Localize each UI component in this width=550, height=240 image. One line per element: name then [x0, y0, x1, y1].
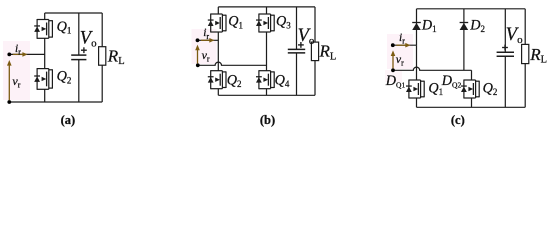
node input bottom (c): [391, 68, 395, 72]
polarity plus (b): [298, 42, 304, 48]
wire: (a) top input wire: [9, 53, 44, 55]
voltage arrow vr (c): [391, 50, 396, 68]
wire: (a) load branch: [101, 13, 103, 47]
voltage arrow vr (b): [195, 45, 200, 64]
svg-text:(b): (b): [260, 113, 275, 127]
resistor RL (b): [311, 42, 318, 61]
node input top (c): [391, 43, 395, 47]
capacitor Co (c): [497, 52, 514, 56]
wire: (b) Q2 source lead: [217, 89, 219, 96]
capacitor Co (b): [288, 49, 305, 53]
wire: (a) Q2 source lead: [44, 89, 46, 102]
wire (b) bottom input wire (with crossover hop): [198, 62, 267, 65]
wire: (a) bottom rail: [9, 101, 102, 103]
svg-text:(a): (a): [61, 113, 76, 127]
node input top (b): [196, 38, 200, 42]
transistor Q1 (c): [406, 80, 424, 99]
transistor Q2 (c): [461, 80, 479, 99]
svg-text:(c): (c): [451, 113, 465, 127]
wire: (c) D2 branch: [463, 9, 465, 71]
wire: (b) load branch: [314, 7, 316, 42]
wire: (b) Q4 source lead: [266, 89, 268, 96]
wire: (b) top rail: [218, 6, 315, 8]
diode D1: [412, 23, 421, 31]
wire: (a) Q1 drain lead: [44, 13, 46, 20]
current arrow ir (b): [201, 38, 215, 43]
pink highlight behind input annotations (c): [387, 34, 413, 69]
resistor RL (a): [99, 47, 106, 65]
transistor Q1 (a): [34, 19, 52, 39]
voltage arrow vr (a): [7, 60, 12, 100]
wire: (c) top input wire: [393, 44, 417, 46]
transistor Q3 (b): [256, 14, 274, 33]
wire: (a) capacitor branch: [78, 13, 80, 55]
wire: (c) Q2 drain lead: [471, 70, 473, 80]
transistor Q4 (b): [256, 70, 274, 89]
polarity plus (c): [502, 45, 508, 51]
diode D2: [460, 23, 469, 31]
wire: (b) Q3 drain lead: [266, 7, 268, 14]
wire: (c) bottom rail: [417, 106, 526, 108]
node input bottom (a): [7, 100, 11, 104]
wire: (b) right trunk: [266, 32, 268, 71]
node input bottom (b): [196, 63, 200, 67]
wire: (b) Q1 drain lead: [217, 7, 219, 14]
wire: (c) capacitor branch: [504, 9, 506, 53]
wire: (c) Q2 source lead: [471, 98, 473, 107]
capacitor Co (a): [71, 55, 86, 60]
resistor RL (c): [522, 44, 529, 63]
wire: (b) top input wire: [198, 39, 219, 41]
wire: (b) left trunk: [217, 32, 219, 71]
transistor Q1 (b): [208, 14, 226, 33]
pink highlight behind D_Q1 label (c): [385, 70, 402, 82]
wire: (c) Q1 source lead: [416, 98, 418, 107]
wire: (c) top rail: [417, 8, 526, 10]
wire: (a) top rail: [45, 12, 102, 14]
wire: (c) left leg upper (D1 branch): [416, 9, 418, 45]
polarity plus (a): [81, 47, 87, 53]
current arrow ir (c): [396, 43, 410, 48]
wire: (c) load branch: [524, 9, 526, 45]
node input top (a): [7, 53, 11, 57]
wire: (b) capacitor branch: [296, 7, 298, 50]
wire: (b) bottom rail: [218, 94, 315, 96]
pink highlight behind input annotations (b): [192, 29, 217, 64]
transistor Q2 (a): [34, 68, 52, 90]
wire (c) bottom input wire (with crossover hop): [393, 67, 472, 70]
pink highlight behind input annotations (a): [3, 41, 30, 100]
current arrow ir (a): [13, 52, 28, 57]
wire: (c) left leg middle (node A to Q1 drain): [416, 45, 418, 80]
transistor Q2 (b): [208, 70, 226, 89]
wire: (a) midpoint trunk: [44, 38, 46, 68]
